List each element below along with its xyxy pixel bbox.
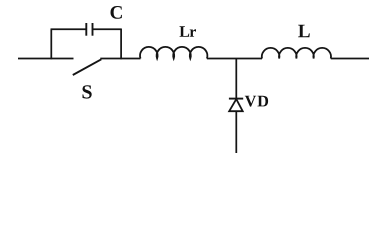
diode VD: cathode bar	[229, 98, 243, 100]
capacitor C: right plate	[92, 23, 94, 36]
wire: capacitor top lead, left	[51, 28, 87, 30]
label Lr	[180, 26, 197, 37]
wire: switch to inductor Lr	[100, 58, 140, 60]
wire: diode branch upper lead	[235, 59, 237, 99]
wire: capacitor branch right riser	[120, 29, 122, 60]
label C	[111, 6, 122, 19]
wire: Lr to L with diode tap junction	[207, 58, 262, 60]
wire: capacitor top lead, right	[93, 28, 122, 30]
wire: left input lead	[18, 58, 74, 60]
inductor Lr: 4-hump coil	[140, 47, 207, 59]
diode VD: anode triangle	[229, 99, 243, 111]
inductor L: 4-hump coil	[262, 48, 331, 59]
label VD	[245, 96, 268, 107]
switch S: open blade	[73, 59, 102, 75]
label L	[298, 25, 310, 37]
wire: diode branch lower lead	[235, 111, 237, 153]
wire: right output lead	[331, 58, 369, 60]
capacitor C: left plate	[85, 23, 87, 36]
wire: capacitor branch left riser (T-junction on main line)	[50, 29, 52, 59]
label S	[83, 85, 92, 98]
